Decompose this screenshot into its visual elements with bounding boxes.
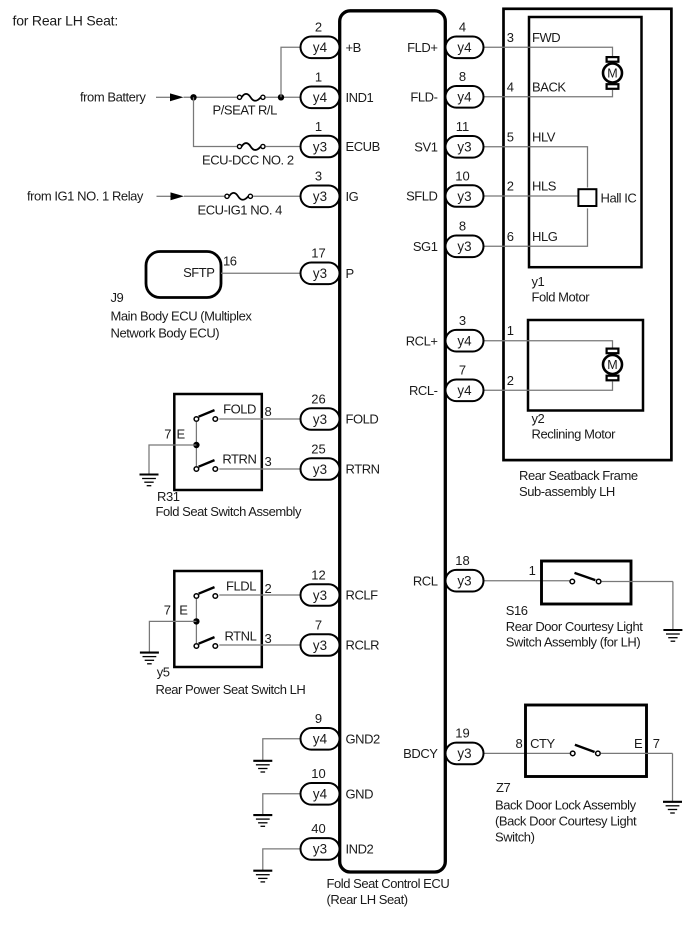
- svg-text:7: 7: [164, 426, 171, 441]
- svg-text:26: 26: [311, 391, 325, 406]
- svg-text:3: 3: [265, 454, 272, 469]
- svg-text:17: 17: [311, 246, 325, 261]
- pin 1 IND1 (connector y4): [301, 87, 340, 109]
- wire pin RCL- to reclining motor: [484, 382, 613, 391]
- svg-text:y4: y4: [457, 334, 472, 349]
- switch RTRN (R31): [194, 467, 199, 472]
- pin 10 SFLD (connector y3): [446, 185, 484, 207]
- svg-text:(Rear LH Seat): (Rear LH Seat): [327, 892, 408, 907]
- svg-text:Sub-assembly LH: Sub-assembly LH: [519, 484, 615, 499]
- pin 7 RCLR (connector y3): [301, 634, 340, 656]
- svg-text:y4: y4: [313, 90, 328, 105]
- wire FLDL contact to pin RCLF: [219, 594, 300, 596]
- svg-text:y3: y3: [313, 462, 327, 477]
- junction node A (battery split): [190, 94, 196, 100]
- svg-text:P: P: [346, 266, 354, 281]
- wire pin GND to ground: [263, 794, 301, 815]
- svg-text:Reclining Motor: Reclining Motor: [532, 427, 617, 442]
- svg-text:FOLD: FOLD: [346, 412, 379, 427]
- pin 19 BDCY (connector y3): [446, 743, 484, 765]
- pin 3 IG (connector y3): [301, 186, 340, 208]
- svg-text:FWD: FWD: [532, 30, 560, 45]
- svg-text:HLV: HLV: [532, 129, 556, 144]
- svg-text:HLS: HLS: [532, 179, 557, 194]
- svg-text:y4: y4: [313, 787, 328, 802]
- svg-text:Z7: Z7: [496, 780, 510, 795]
- svg-text:y4: y4: [457, 383, 472, 398]
- switch box Z7: [526, 705, 647, 777]
- switch FOLD (R31): [194, 417, 199, 422]
- svg-text:y3: y3: [457, 239, 471, 254]
- svg-text:Back Door Lock Assembly: Back Door Lock Assembly: [495, 798, 637, 813]
- svg-text:y2: y2: [532, 411, 545, 426]
- svg-text:y4: y4: [457, 90, 472, 105]
- svg-text:3: 3: [315, 169, 322, 184]
- wire FOLD contact to pin FOLD: [219, 418, 300, 420]
- switch FLDL (y5): [194, 594, 199, 599]
- svg-text:y4: y4: [313, 732, 328, 747]
- svg-text:25: 25: [311, 441, 325, 456]
- svg-text:y3: y3: [313, 842, 327, 857]
- svg-text:y3: y3: [457, 574, 471, 589]
- pin 11 SV1 (connector y3): [446, 136, 484, 158]
- svg-text:E: E: [177, 426, 186, 441]
- pin 10 GND (connector y4): [301, 783, 340, 805]
- svg-text:SFTP: SFTP: [183, 265, 214, 280]
- svg-text:7: 7: [164, 602, 171, 617]
- svg-text:y3: y3: [313, 588, 327, 603]
- wire Z7 to ground: [672, 753, 674, 801]
- svg-text:1: 1: [315, 70, 322, 85]
- pin 18 RCL (connector y3): [446, 570, 484, 592]
- svg-text:Fold Seat Control ECU: Fold Seat Control ECU: [327, 876, 450, 891]
- wire pin RCL to S16 switch: [484, 580, 570, 582]
- svg-text:4: 4: [459, 20, 466, 35]
- svg-text:y3: y3: [457, 746, 471, 761]
- ground (R31): [140, 473, 159, 475]
- svg-text:Network Body ECU): Network Body ECU): [111, 326, 220, 341]
- svg-text:ECU-DCC NO. 2: ECU-DCC NO. 2: [202, 152, 294, 167]
- wire S16 switch to ground run: [602, 581, 673, 583]
- svg-text:Switch Assembly (for LH): Switch Assembly (for LH): [506, 635, 641, 650]
- svg-text:y3: y3: [313, 638, 327, 653]
- svg-text:RCLF: RCLF: [346, 588, 379, 603]
- svg-text:y3: y3: [457, 140, 471, 155]
- wire y5 E to ground: [149, 621, 196, 652]
- wire pin GND2 to ground: [263, 739, 301, 760]
- svg-text:10: 10: [311, 766, 325, 781]
- svg-text:GND: GND: [346, 786, 374, 801]
- svg-text:11: 11: [456, 119, 470, 134]
- svg-text:FLD+: FLD+: [407, 40, 437, 55]
- pin 3 RCL+ (connector y4): [446, 330, 484, 352]
- switch Z7 CTY contact: [570, 751, 575, 756]
- svg-text:RTRN: RTRN: [346, 462, 380, 477]
- switch box S16: [542, 561, 632, 604]
- wire S16 to ground: [672, 582, 674, 630]
- svg-text:R31: R31: [157, 489, 180, 504]
- svg-text:2: 2: [507, 373, 514, 388]
- svg-text:2: 2: [315, 20, 322, 35]
- pin 12 RCLF (connector y3): [301, 584, 340, 606]
- svg-text:8: 8: [265, 404, 272, 419]
- svg-text:RCL: RCL: [413, 573, 438, 588]
- pin 1 ECUB (connector y3): [301, 136, 340, 158]
- svg-text:4: 4: [507, 79, 514, 94]
- svg-text:12: 12: [311, 567, 325, 582]
- svg-text:IG: IG: [346, 189, 359, 204]
- svg-text:2: 2: [507, 179, 514, 194]
- svg-text:RCL+: RCL+: [406, 333, 438, 348]
- svg-text:y3: y3: [313, 139, 327, 154]
- svg-text:+B: +B: [346, 40, 361, 55]
- svg-text:E: E: [634, 736, 643, 751]
- svg-text:for Rear LH Seat:: for Rear LH Seat:: [13, 12, 119, 28]
- svg-text:Main Body ECU (Multiplex: Main Body ECU (Multiplex: [111, 309, 253, 324]
- fuse ECU-DCC NO. 2: [237, 144, 241, 148]
- wire pin FLD- to fold motor (BACK): [484, 90, 613, 97]
- svg-text:M: M: [607, 67, 617, 81]
- svg-text:ECU-IG1 NO. 4: ECU-IG1 NO. 4: [198, 202, 283, 217]
- motor box y2 Reclining Motor: [528, 320, 643, 411]
- wire fuse ECU-IG1 NO. 4 to pin IG: [253, 195, 300, 197]
- svg-text:SFLD: SFLD: [406, 189, 437, 204]
- pin 8 SG1 (connector y3): [446, 236, 484, 258]
- svg-text:7: 7: [315, 617, 322, 632]
- wire Z7 switch to ground run: [601, 752, 673, 754]
- wire node B up to pin +B: [281, 47, 301, 97]
- svg-text:GND2: GND2: [346, 731, 381, 746]
- ground (Z7): [663, 801, 682, 803]
- svg-text:3: 3: [459, 313, 466, 328]
- wire pin FLD+ to fold motor (FWD): [484, 47, 613, 56]
- svg-text:SV1: SV1: [414, 139, 437, 154]
- wire fuse ECU-DCC NO. 2 to pin ECUB: [266, 146, 301, 148]
- ground (IND2): [253, 870, 272, 872]
- svg-text:from Battery: from Battery: [80, 89, 146, 104]
- svg-text:6: 6: [507, 229, 514, 244]
- svg-text:y3: y3: [313, 266, 327, 281]
- ground (GND): [253, 814, 272, 816]
- svg-text:IND2: IND2: [346, 842, 374, 857]
- svg-text:RTNL: RTNL: [224, 629, 256, 644]
- svg-text:HLG: HLG: [532, 229, 558, 244]
- pin 9 GND2 (connector y4): [301, 728, 340, 750]
- svg-text:16: 16: [223, 253, 237, 268]
- svg-text:5: 5: [507, 129, 514, 144]
- svg-text:Rear Power Seat Switch LH: Rear Power Seat Switch LH: [156, 682, 306, 697]
- ECU J9 connector SFTP box: [146, 252, 221, 298]
- svg-text:1: 1: [529, 563, 536, 578]
- svg-text:3: 3: [507, 30, 514, 45]
- svg-text:Fold Motor: Fold Motor: [532, 290, 591, 305]
- switch box R31: [174, 394, 261, 490]
- wire pin RCL+ to reclining motor: [484, 341, 613, 348]
- svg-text:y4: y4: [313, 40, 328, 55]
- wire pin SV1 to Hall IC (HLV): [484, 147, 588, 188]
- svg-text:19: 19: [455, 726, 469, 741]
- wire R31 common bus: [195, 422, 197, 466]
- svg-text:RCLR: RCLR: [346, 638, 380, 653]
- svg-text:9: 9: [315, 711, 322, 726]
- svg-text:Fold Seat Switch Assembly: Fold Seat Switch Assembly: [156, 504, 302, 519]
- svg-text:3: 3: [265, 631, 272, 646]
- wire pin IND2 to ground: [263, 849, 301, 870]
- assembly box: Rear Seatback Frame Sub-assembly LH: [504, 9, 672, 460]
- switch RTNL (y5): [194, 644, 199, 649]
- svg-text:E: E: [179, 602, 188, 617]
- svg-text:y3: y3: [313, 412, 327, 427]
- svg-text:FOLD: FOLD: [223, 402, 256, 417]
- svg-text:7: 7: [459, 363, 466, 378]
- wire y5 common bus: [195, 599, 197, 643]
- fuse ECU-IG1 NO. 4: [225, 194, 229, 198]
- svg-text:18: 18: [455, 553, 469, 568]
- junction node E (R31 common): [193, 442, 199, 448]
- svg-text:Rear Door Courtesy Light: Rear Door Courtesy Light: [506, 619, 643, 634]
- svg-text:Hall IC: Hall IC: [601, 191, 637, 206]
- svg-text:from IG1 NO. 1 Relay: from IG1 NO. 1 Relay: [27, 189, 144, 204]
- svg-text:7: 7: [653, 736, 660, 751]
- svg-text:BACK: BACK: [532, 79, 566, 94]
- svg-text:1: 1: [507, 323, 514, 338]
- wire RTRN contact to pin RTRN: [219, 468, 300, 470]
- fuse P/SEAT R/L: [237, 95, 241, 99]
- svg-text:(Back Door Courtesy Light: (Back Door Courtesy Light: [495, 814, 637, 829]
- svg-text:10: 10: [455, 168, 469, 183]
- switch S16 contact: [570, 579, 575, 584]
- pin 4 FLD+ (connector y4): [446, 37, 484, 59]
- wire RTNL contact to pin RCLR: [219, 644, 300, 646]
- motor M (fold motor y1): [607, 57, 619, 62]
- wire SFTP pin 16 to pin P: [221, 272, 301, 274]
- ground (GND2): [253, 760, 272, 762]
- wire node A down to fuse ECU-DCC NO. 2: [194, 97, 237, 146]
- wire fuse P/SEAT R/L to node B: [266, 96, 301, 98]
- switch box y5: [174, 571, 261, 667]
- svg-text:40: 40: [311, 821, 325, 836]
- junction node E (y5 common): [193, 618, 199, 624]
- svg-text:RTRN: RTRN: [222, 452, 256, 467]
- wire IG1 feed to fuse ECU-IG1 NO. 4: [184, 195, 224, 197]
- svg-text:1: 1: [315, 119, 322, 134]
- svg-text:IND1: IND1: [346, 90, 374, 105]
- ground (y5): [140, 652, 159, 654]
- pin 40 IND2 (connector y3): [301, 838, 340, 860]
- wire pin BDCY to Z7 switch: [484, 752, 570, 754]
- ECU: Fold Seat Control ECU (Rear LH Seat) body: [340, 11, 446, 872]
- arrow: from Battery feed: [156, 96, 172, 98]
- pin 7 RCL- (connector y4): [446, 380, 484, 402]
- svg-text:y4: y4: [457, 40, 472, 55]
- svg-text:ECUB: ECUB: [346, 139, 380, 154]
- svg-text:FLDL: FLDL: [226, 579, 256, 594]
- wire pin SG1 to Hall IC (HLG): [484, 208, 588, 246]
- motor M (reclining motor y2): [607, 349, 619, 354]
- wire pin SFLD to Hall IC (HLS): [484, 195, 578, 197]
- junction node B (+B branch): [278, 94, 284, 100]
- svg-text:BDCY: BDCY: [403, 746, 438, 761]
- svg-text:Rear Seatback Frame: Rear Seatback Frame: [519, 468, 638, 483]
- svg-text:J9: J9: [111, 290, 124, 305]
- svg-text:FLD-: FLD-: [410, 89, 437, 104]
- arrow: IG1 relay feed: [157, 195, 173, 197]
- svg-text:y3: y3: [457, 189, 471, 204]
- svg-text:Switch): Switch): [495, 830, 535, 845]
- motor box y1 Fold Motor: [529, 17, 642, 267]
- IC: Hall IC: [578, 189, 596, 206]
- svg-text:S16: S16: [506, 603, 528, 618]
- svg-text:8: 8: [516, 736, 523, 751]
- pin 2 +B (connector y4): [301, 37, 340, 59]
- ground (S16): [663, 629, 682, 631]
- svg-text:y3: y3: [313, 189, 327, 204]
- pin 8 FLD- (connector y4): [446, 86, 484, 108]
- wire R31 E to ground: [149, 445, 196, 474]
- svg-text:M: M: [607, 358, 617, 372]
- svg-text:RCL-: RCL-: [409, 383, 438, 398]
- svg-text:y5: y5: [157, 665, 170, 680]
- svg-text:SG1: SG1: [413, 239, 438, 254]
- svg-text:y1: y1: [532, 274, 545, 289]
- pin 25 RTRN (connector y3): [301, 458, 340, 480]
- svg-text:2: 2: [265, 581, 272, 596]
- pin 17 P (connector y3): [301, 263, 340, 285]
- svg-text:8: 8: [459, 219, 466, 234]
- pin 26 FOLD (connector y3): [301, 408, 340, 430]
- svg-text:P/SEAT R/L: P/SEAT R/L: [213, 102, 278, 117]
- svg-text:8: 8: [459, 69, 466, 84]
- svg-text:CTY: CTY: [530, 736, 555, 751]
- wire battery feed to fuse P/SEAT R/L: [184, 96, 237, 98]
